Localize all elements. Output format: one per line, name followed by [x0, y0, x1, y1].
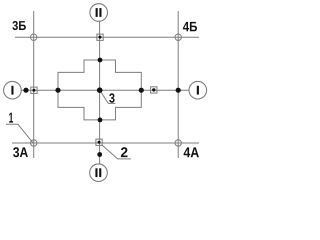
dot inside bottom square [98, 141, 101, 144]
corner circle 3А [31, 140, 37, 146]
axis circle I left [4, 81, 22, 99]
control point square on top grid line [97, 34, 103, 40]
dot inside top square [99, 36, 102, 39]
corner circle 3Б [31, 34, 37, 40]
dot on building left edge [55, 88, 60, 93]
axis circle II bottom [90, 164, 108, 182]
grid label 3А [13, 147, 28, 157]
numeral I left [11, 86, 13, 95]
control point square on bottom grid line [96, 139, 102, 145]
dot left of left square [23, 88, 28, 93]
dot on building right edge [139, 88, 144, 93]
control point square on left grid line [31, 87, 37, 93]
leader line for label 1 [6, 124, 33, 142]
control point square right of building [151, 87, 157, 93]
right grid line [177, 11, 179, 158]
corner circle 4А [175, 140, 181, 146]
numeral I right [197, 86, 199, 95]
grid label 4А [184, 147, 199, 157]
point label 3 [109, 93, 114, 102]
point label 1 [9, 113, 13, 123]
axis circle I right [189, 81, 207, 99]
dot building centre point [97, 87, 103, 93]
building outline (stepped cross) [58, 60, 141, 120]
dot on building top edge [98, 58, 103, 63]
leader line for label 3 [100, 90, 116, 103]
leader line for label 2 [102, 145, 131, 159]
dot inside left square [32, 89, 35, 92]
point label 2 [121, 147, 128, 157]
dot below bottom square [97, 152, 102, 157]
dot inside right square [152, 88, 155, 91]
left grid line [33, 11, 35, 158]
vertical axis II [99, 21, 101, 164]
axis circle II top [90, 4, 108, 22]
numeral II bottom [95, 168, 97, 177]
horizontal axis I [21, 89, 189, 91]
top grid line [15, 36, 199, 38]
grid label 3Б [12, 21, 26, 30]
corner circle 4Б [175, 34, 181, 40]
numeral II top [96, 8, 98, 17]
dot on building bottom edge [98, 118, 103, 123]
dot on right grid line [176, 88, 181, 93]
bottom grid line [12, 142, 199, 144]
grid label 4Б [183, 22, 197, 31]
